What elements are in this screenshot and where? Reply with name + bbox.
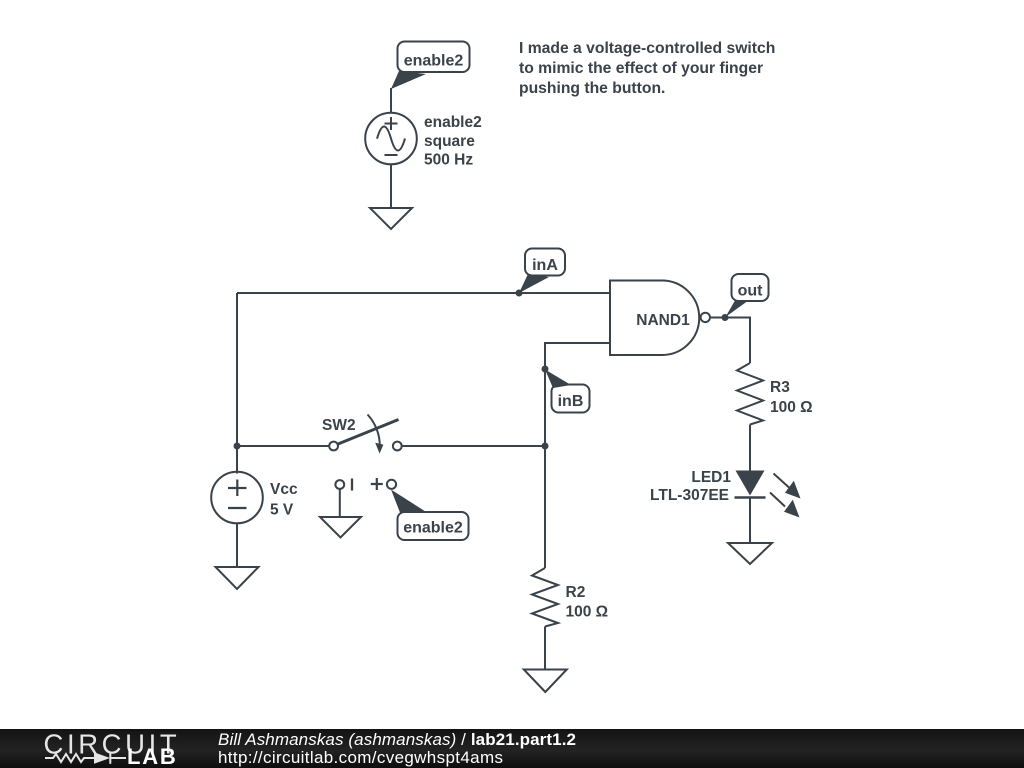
svg-text:pushing the button.: pushing the button. xyxy=(519,80,665,97)
svg-text:500 Hz: 500 Hz xyxy=(424,152,473,169)
svg-text:LAB: LAB xyxy=(127,744,178,768)
svg-text:Bill Ashmanskas (ashmanskas) /: Bill Ashmanskas (ashmanskas) / lab21.par… xyxy=(218,730,576,749)
svg-text:LED1: LED1 xyxy=(691,469,731,486)
svg-text:to mimic the effect of your fi: to mimic the effect of your finger xyxy=(519,60,763,77)
svg-text:inA: inA xyxy=(532,257,558,274)
svg-text:NAND1: NAND1 xyxy=(636,312,690,329)
svg-text:out: out xyxy=(738,283,764,300)
svg-text:100 Ω: 100 Ω xyxy=(770,399,813,416)
svg-text:Vcc: Vcc xyxy=(270,481,298,498)
svg-text:5 V: 5 V xyxy=(270,502,294,519)
svg-text:R3: R3 xyxy=(770,379,790,396)
svg-text:enable2: enable2 xyxy=(424,114,482,131)
svg-text:http://circuitlab.com/cvegwhsp: http://circuitlab.com/cvegwhspt4ams xyxy=(218,748,503,767)
svg-text:I made a voltage-controlled sw: I made a voltage-controlled switch xyxy=(519,40,775,57)
svg-text:inB: inB xyxy=(558,393,584,410)
svg-text:LTL-307EE: LTL-307EE xyxy=(650,487,729,504)
svg-text:SW2: SW2 xyxy=(322,417,356,434)
svg-text:100 Ω: 100 Ω xyxy=(566,604,609,621)
svg-text:square: square xyxy=(424,133,475,150)
svg-text:R2: R2 xyxy=(566,584,586,601)
svg-text:enable2: enable2 xyxy=(403,520,463,537)
svg-text:enable2: enable2 xyxy=(404,53,464,70)
